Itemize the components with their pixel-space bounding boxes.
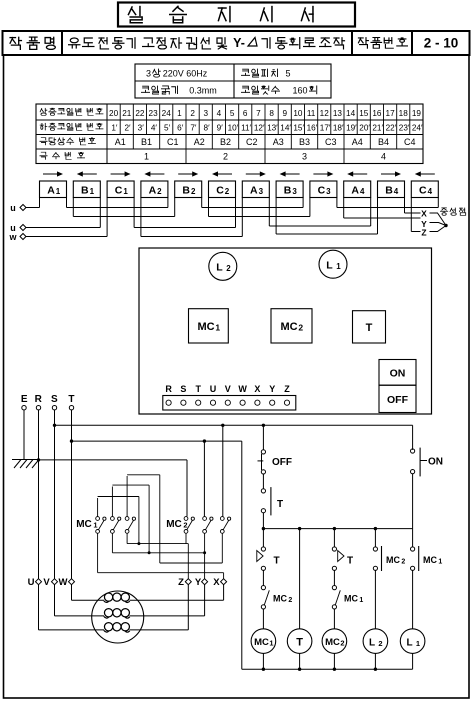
- timed contact T column1: [262, 529, 264, 547]
- timer contact T (delay) below OFF: [261, 489, 265, 493]
- svg-text:17′: 17′: [320, 124, 331, 133]
- svg-text:u: u: [10, 203, 16, 213]
- svg-text:MC: MC: [76, 519, 92, 530]
- feed wire bus down to MC2 contact 3: [222, 425, 224, 516]
- svg-text:4: 4: [428, 187, 433, 196]
- svg-text:3: 3: [259, 187, 264, 196]
- contactor MC2 unit on panel: [271, 309, 312, 343]
- svg-text:C3: C3: [325, 137, 337, 147]
- contact MC2 column4: [374, 529, 376, 547]
- svg-text:24: 24: [162, 109, 172, 118]
- winding direction arrow over B3: [282, 173, 300, 175]
- svg-text:2: 2: [288, 597, 292, 604]
- svg-text:1: 1: [416, 639, 420, 648]
- spec table: [135, 64, 331, 98]
- MC1 coil: [251, 629, 276, 654]
- svg-text:A1: A1: [115, 137, 126, 147]
- wire column1: [262, 570, 264, 585]
- svg-text:21: 21: [122, 109, 132, 118]
- svg-text:14: 14: [346, 109, 356, 118]
- neutral point 중성점: [430, 213, 447, 232]
- coil A2 box: [141, 181, 168, 198]
- svg-text:1: 1: [438, 559, 442, 566]
- wire W to motor coil 1: [71, 585, 73, 601]
- wire column1 to MC1 coil: [262, 609, 264, 629]
- svg-text:3: 3: [326, 187, 331, 196]
- winding direction arrow over A1: [43, 173, 61, 175]
- svg-text:MC: MC: [423, 555, 437, 565]
- svg-text:2: 2: [226, 264, 231, 273]
- svg-text:R: R: [165, 384, 172, 394]
- winding direction arrow over C1: [111, 173, 129, 175]
- svg-text:B1: B1: [141, 137, 152, 147]
- coil A1 box: [40, 181, 67, 198]
- winding direction arrow over C3: [313, 173, 331, 175]
- wire C3 end to C4 end: [336, 198, 338, 208]
- MC1 main contact c: [125, 517, 129, 521]
- lower jumper H3 pass-MC2c: [160, 562, 223, 564]
- svg-text:2: 2: [340, 639, 344, 648]
- svg-text:13: 13: [333, 109, 343, 118]
- lower jumper H1 MC1c-MC2a-Z: [126, 533, 128, 543]
- svg-text:5: 5: [230, 109, 235, 118]
- svg-text:3: 3: [146, 69, 151, 79]
- svg-text:B: B: [81, 185, 89, 197]
- svg-text:1: 1: [177, 109, 182, 118]
- svg-text:10′: 10′: [228, 124, 239, 133]
- svg-text:18′: 18′: [333, 124, 344, 133]
- lower jumper H2 MC1b-MC2b-Y: [111, 533, 113, 553]
- header row 작품명: [3, 31, 470, 55]
- feed wire T line down to MC2 contact 2: [203, 439, 206, 442]
- svg-text:2: 2: [378, 639, 382, 648]
- svg-text:5′: 5′: [164, 124, 171, 133]
- svg-text:1: 1: [56, 187, 61, 196]
- wire T coil column2: [299, 529, 301, 629]
- wire U to motor coil 3: [38, 585, 40, 630]
- svg-text:MC: MC: [166, 519, 182, 530]
- svg-text:3: 3: [204, 109, 209, 118]
- svg-text:3′: 3′: [138, 124, 145, 133]
- wire column5 to L1: [412, 570, 414, 629]
- svg-text:A3: A3: [273, 137, 284, 147]
- svg-text:160: 160: [292, 86, 307, 96]
- svg-text:B: B: [385, 185, 393, 197]
- winding direction arrow over A3: [246, 173, 264, 175]
- svg-text:U: U: [28, 577, 35, 588]
- svg-text:16′: 16′: [307, 124, 318, 133]
- svg-text:T: T: [347, 556, 353, 567]
- svg-text:6′: 6′: [177, 124, 184, 133]
- winding number table: [36, 104, 423, 164]
- winding direction arrow over C2: [214, 173, 232, 175]
- svg-text:T: T: [366, 322, 373, 334]
- wire u to A1 start: [26, 207, 40, 209]
- MC2 main contact c: [220, 517, 224, 521]
- svg-text:2: 2: [223, 152, 228, 162]
- svg-text:4: 4: [360, 187, 365, 196]
- wire B4 end to X: [404, 198, 406, 214]
- T timer coil: [287, 629, 312, 654]
- svg-text:12: 12: [320, 109, 330, 118]
- svg-text:S: S: [51, 394, 58, 405]
- svg-text:1: 1: [144, 152, 149, 162]
- svg-text:T: T: [68, 394, 74, 405]
- svg-text:220V 60Hz: 220V 60Hz: [163, 69, 208, 79]
- svg-text:w: w: [8, 232, 17, 242]
- svg-text:A: A: [250, 185, 258, 197]
- R phase line: [37, 458, 40, 461]
- svg-text:1: 1: [269, 639, 273, 648]
- wire E down to ground: [23, 410, 25, 460]
- svg-text:3: 3: [292, 187, 297, 196]
- svg-text:1: 1: [215, 323, 220, 333]
- svg-text:2: 2: [183, 521, 187, 530]
- wire C4 start to Z: [410, 198, 412, 232]
- svg-text:7′: 7′: [190, 124, 197, 133]
- svg-text:L: L: [216, 262, 223, 274]
- svg-text:L: L: [326, 260, 333, 272]
- wire column3 to MC2 coil: [333, 609, 335, 629]
- coil C4 box: [411, 181, 438, 198]
- svg-text:Y: Y: [269, 384, 275, 394]
- svg-text:10: 10: [293, 109, 303, 118]
- svg-text:A2: A2: [194, 137, 205, 147]
- svg-text:23: 23: [149, 109, 159, 118]
- wire B1 to B2: [72, 198, 74, 217]
- winding direction arrow over A2: [146, 173, 164, 175]
- wire v to B1 end: [26, 227, 100, 229]
- svg-text:9′: 9′: [217, 124, 224, 133]
- motor M stator circle: [92, 591, 144, 643]
- svg-text:X: X: [421, 209, 427, 219]
- svg-text:X: X: [213, 577, 220, 588]
- motor winding coil 1: [104, 593, 112, 601]
- wire A4 start to Y: [343, 198, 345, 219]
- MC2 main contact b: [203, 517, 207, 521]
- svg-text:W: W: [238, 384, 247, 394]
- winding direction arrow over B2: [178, 173, 196, 175]
- svg-text:R: R: [35, 394, 43, 405]
- svg-text:19′: 19′: [346, 124, 357, 133]
- svg-text:15′: 15′: [293, 124, 304, 133]
- svg-text:16: 16: [372, 109, 382, 118]
- wire T vertical to W: [71, 410, 73, 579]
- wire ON down to control bus 2: [412, 474, 414, 529]
- svg-text:X: X: [254, 384, 260, 394]
- winding direction arrow over B1: [79, 173, 97, 175]
- coil B1 box: [73, 181, 100, 198]
- MC2 coil: [322, 629, 347, 654]
- svg-text:MC: MC: [254, 637, 269, 648]
- svg-text:11′: 11′: [241, 124, 251, 133]
- control panel box: [139, 248, 432, 414]
- svg-text:C: C: [419, 185, 427, 197]
- svg-text:1: 1: [336, 262, 341, 271]
- motor winding coil 3: [104, 623, 112, 631]
- svg-text:C: C: [216, 185, 224, 197]
- svg-text:2: 2: [190, 109, 195, 118]
- coil B2 box: [175, 181, 202, 198]
- timer T unit on panel: [353, 311, 386, 343]
- wire w to C1 start: [26, 236, 107, 238]
- svg-text:MC: MC: [386, 555, 400, 565]
- svg-text:B: B: [182, 185, 190, 197]
- title box 실습지시서: [118, 3, 355, 27]
- control bus from S (upper): [53, 424, 56, 427]
- svg-text:20: 20: [109, 109, 119, 118]
- wire C2 to C3: [208, 198, 210, 217]
- svg-text:B3: B3: [299, 137, 310, 147]
- svg-text:1: 1: [93, 521, 97, 530]
- svg-text:1: 1: [123, 187, 128, 196]
- wire Z to motor coil 3: [187, 585, 189, 630]
- svg-text:15: 15: [359, 109, 369, 118]
- svg-text:4: 4: [217, 109, 222, 118]
- wire B2 end to B3 end: [201, 198, 203, 208]
- ground symbol: [12, 459, 36, 461]
- svg-text:2 - 10: 2 - 10: [424, 36, 459, 51]
- svg-text:2: 2: [191, 187, 196, 196]
- OFF pushbutton: [261, 450, 265, 454]
- svg-text:A: A: [351, 185, 359, 197]
- svg-text:2: 2: [401, 559, 405, 566]
- control bus 2: [263, 528, 412, 530]
- svg-text:Z: Z: [421, 228, 426, 238]
- svg-text:C1: C1: [167, 137, 179, 147]
- svg-text:MC: MC: [197, 321, 214, 333]
- wire column3: [333, 570, 335, 585]
- contact MC1 column5: [412, 529, 414, 547]
- MC1 main contact a: [96, 517, 100, 521]
- svg-text:B2: B2: [220, 137, 231, 147]
- ON pushbutton: [412, 425, 414, 450]
- svg-text:W: W: [59, 577, 68, 588]
- ON button on panel: [379, 360, 416, 386]
- lamp L2 on panel: [209, 252, 237, 280]
- bracket MC1c top jumper: [126, 476, 128, 517]
- winding direction arrow over A4: [349, 173, 367, 175]
- svg-text:L: L: [406, 638, 412, 649]
- svg-text:2: 2: [225, 187, 230, 196]
- svg-text:MC: MC: [280, 321, 297, 333]
- svg-text:Z: Z: [284, 384, 290, 394]
- contact MC2 NO column1: [261, 586, 265, 590]
- svg-text:B: B: [284, 185, 292, 197]
- svg-text:13′: 13′: [267, 124, 278, 133]
- return wire T line down to bottom bus: [241, 441, 243, 669]
- wire A1 end to A2 end: [66, 198, 68, 208]
- svg-text:8′: 8′: [204, 124, 211, 133]
- svg-text:ON: ON: [428, 457, 443, 468]
- svg-text:C4: C4: [404, 137, 416, 147]
- wire A3 end to A4 end: [268, 198, 270, 227]
- svg-text:C: C: [318, 185, 326, 197]
- svg-text:Z: Z: [178, 577, 184, 588]
- winding direction arrow over B4: [381, 173, 399, 175]
- svg-text:A: A: [149, 185, 157, 197]
- svg-text:12′: 12′: [254, 124, 265, 133]
- svg-text:2: 2: [157, 187, 162, 196]
- bracket MC1a top jumper: [97, 498, 99, 517]
- coil C2 box: [209, 181, 236, 198]
- svg-text:18: 18: [399, 109, 409, 118]
- svg-text:5: 5: [285, 69, 290, 79]
- svg-text:1: 1: [90, 187, 95, 196]
- svg-text:V: V: [225, 384, 231, 394]
- svg-text:MC: MC: [273, 594, 287, 604]
- lower jumper H4 MC1a-X: [97, 533, 99, 573]
- svg-text:0.3mm: 0.3mm: [189, 86, 217, 96]
- lamp L1: [400, 629, 425, 654]
- wire B3 start to B4 start: [275, 198, 277, 235]
- svg-text:7: 7: [256, 109, 261, 118]
- svg-text:C2: C2: [246, 137, 258, 147]
- svg-text:3: 3: [302, 152, 307, 162]
- svg-text:C: C: [115, 185, 123, 197]
- svg-text:B4: B4: [378, 137, 389, 147]
- feed wire bus down to OFF button: [262, 425, 264, 450]
- MC1 main contact b: [111, 517, 115, 521]
- wire V to motor coil 2: [54, 585, 56, 616]
- svg-text:T: T: [273, 556, 279, 567]
- svg-text:1: 1: [359, 597, 363, 604]
- svg-text:8: 8: [269, 109, 274, 118]
- svg-text:11: 11: [307, 109, 316, 118]
- coil C3 box: [310, 181, 337, 198]
- contact MC1 NO column3: [332, 586, 336, 590]
- coil B3 box: [276, 181, 303, 198]
- svg-text:14′: 14′: [280, 124, 291, 133]
- svg-text:4: 4: [381, 152, 386, 162]
- wire Y to motor coil 2: [204, 585, 206, 616]
- svg-text:T: T: [195, 384, 201, 394]
- svg-text:OFF: OFF: [387, 394, 409, 406]
- svg-text:Y: Y: [195, 577, 202, 588]
- terminal strip R S T U V W X Y Z: [163, 396, 296, 411]
- motor winding coil 2: [104, 609, 112, 617]
- svg-text:U: U: [210, 384, 217, 394]
- winding direction arrow over C4: [417, 173, 435, 175]
- wire S vertical to V: [54, 410, 56, 579]
- svg-text:23′: 23′: [399, 124, 410, 133]
- svg-text:9: 9: [283, 109, 288, 118]
- svg-text:V: V: [43, 577, 50, 588]
- wire X to motor coil 1: [223, 585, 225, 601]
- svg-text:19: 19: [412, 109, 422, 118]
- svg-text:MC: MC: [325, 637, 340, 648]
- svg-text:17: 17: [386, 109, 396, 118]
- wire column4 to L2: [374, 570, 376, 629]
- svg-text:1′: 1′: [111, 124, 118, 133]
- bracket MC1b top jumper: [111, 487, 113, 517]
- coil C1 box: [107, 181, 134, 198]
- svg-text:E: E: [21, 394, 28, 405]
- coil A4 box: [344, 181, 371, 198]
- svg-text:ON: ON: [390, 368, 406, 380]
- OFF button on panel: [379, 385, 416, 412]
- svg-text:A4: A4: [352, 137, 363, 147]
- timed contact T column3: [333, 529, 335, 547]
- svg-text:T: T: [296, 637, 303, 649]
- svg-text:S: S: [180, 384, 186, 394]
- svg-text:MC: MC: [344, 594, 358, 604]
- svg-text:2′: 2′: [124, 124, 131, 133]
- svg-text:2: 2: [298, 323, 303, 333]
- wire T contact to control bus 2: [262, 513, 264, 529]
- svg-text:4′: 4′: [151, 124, 158, 133]
- lamp L1 on panel: [319, 250, 347, 278]
- svg-text:A: A: [47, 185, 55, 197]
- svg-text:4: 4: [394, 187, 399, 196]
- wire A2 start to A3 start: [140, 198, 142, 237]
- MC2 main contact a: [184, 517, 188, 521]
- svg-text:24′: 24′: [412, 124, 423, 133]
- svg-text:21′: 21′: [372, 124, 383, 133]
- T phase line: [70, 439, 73, 442]
- lamp L2: [363, 629, 388, 654]
- contactor MC1 unit on panel: [189, 309, 229, 343]
- coil A3 box: [242, 181, 269, 198]
- wire C1 end to C2 end: [133, 198, 135, 228]
- svg-text:T: T: [277, 499, 283, 510]
- wire R vertical to U: [38, 410, 40, 579]
- svg-text:OFF: OFF: [272, 457, 292, 468]
- feed wire R line down to MC2 contact 1: [186, 460, 188, 517]
- svg-text:Y-: Y-: [233, 36, 245, 50]
- svg-text:22′: 22′: [386, 124, 397, 133]
- bottom return bus: [262, 653, 264, 669]
- coil B4 box: [378, 181, 405, 198]
- wire OFF to T contact: [262, 474, 264, 489]
- svg-text:20′: 20′: [359, 124, 370, 133]
- wire ground to R line: [24, 459, 39, 461]
- svg-text:22: 22: [135, 109, 145, 118]
- svg-text:6: 6: [243, 109, 248, 118]
- svg-text:L: L: [369, 638, 375, 649]
